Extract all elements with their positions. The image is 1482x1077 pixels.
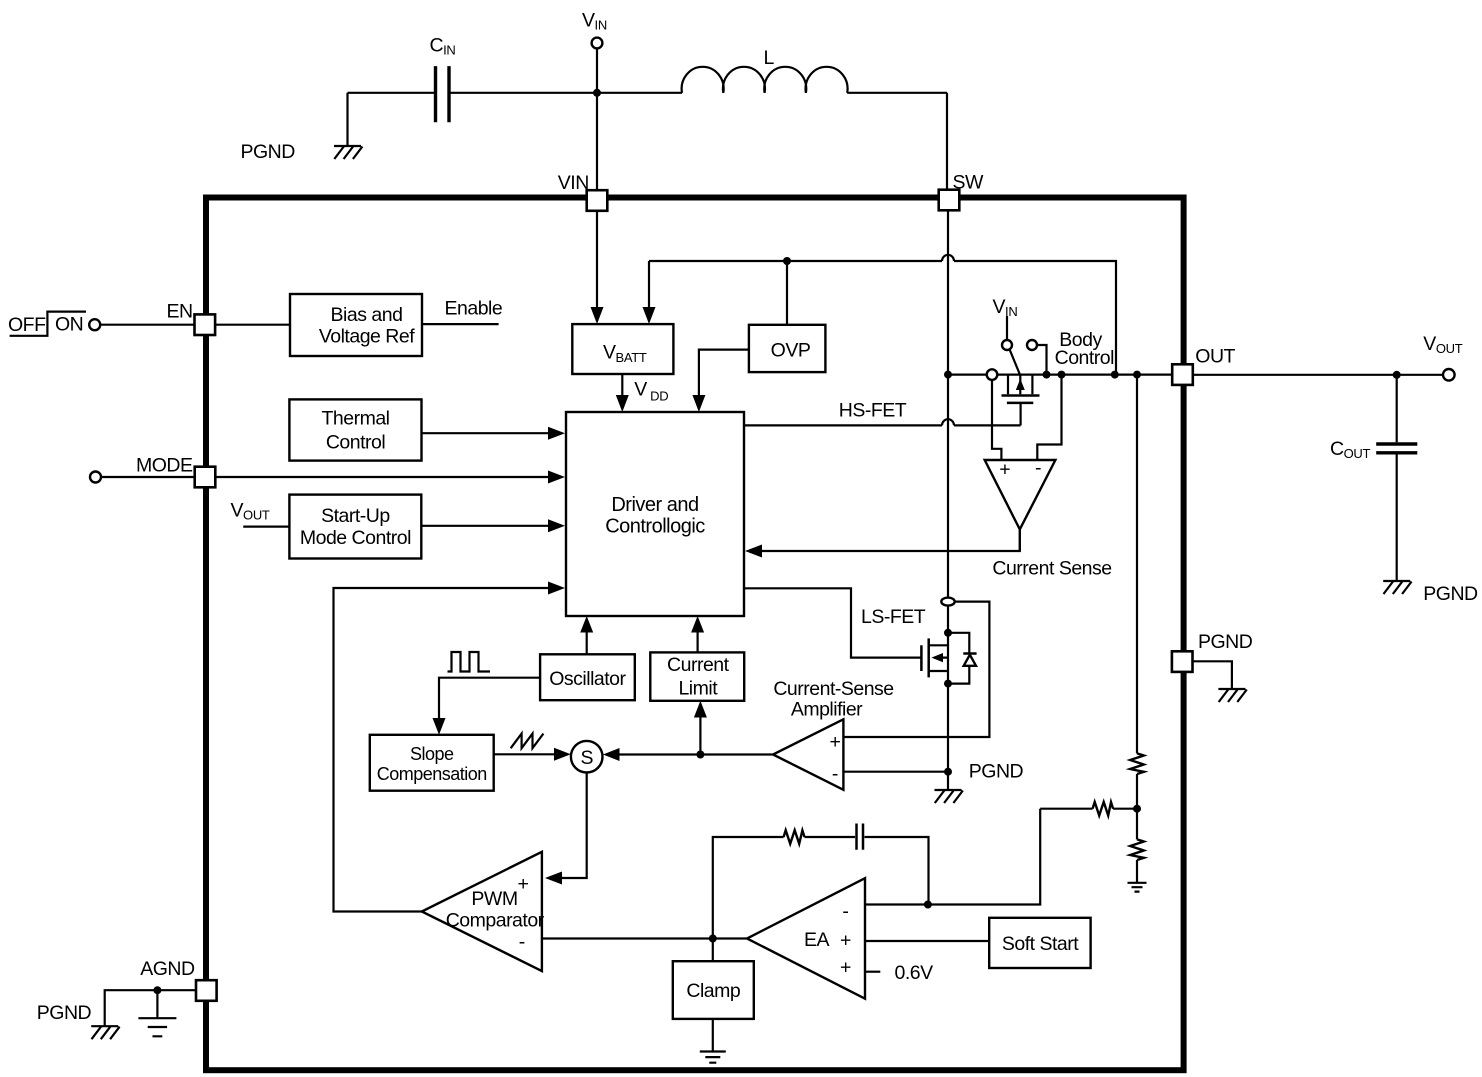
svg-text:Current Sense: Current Sense bbox=[992, 558, 1111, 580]
svg-text:PWM: PWM bbox=[471, 888, 517, 910]
svg-text:+: + bbox=[999, 458, 1010, 480]
svg-text:Voltage Ref: Voltage Ref bbox=[319, 326, 415, 348]
svg-text:PGND: PGND bbox=[1198, 631, 1253, 653]
svg-text:-: - bbox=[832, 763, 838, 785]
svg-text:HS-FET: HS-FET bbox=[839, 400, 907, 422]
svg-text:Current-Sense: Current-Sense bbox=[773, 678, 893, 700]
svg-text:Oscillator: Oscillator bbox=[549, 668, 626, 690]
svg-text:EN: EN bbox=[167, 301, 193, 323]
svg-text:PGND: PGND bbox=[969, 761, 1024, 783]
svg-text:ON: ON bbox=[55, 313, 83, 335]
svg-text:Control: Control bbox=[326, 431, 386, 453]
svg-text:OVP: OVP bbox=[771, 340, 811, 362]
svg-text:LS-FET: LS-FET bbox=[861, 606, 926, 628]
svg-text:PGND: PGND bbox=[241, 141, 296, 163]
svg-text:Driver and: Driver and bbox=[611, 494, 698, 516]
svg-text:+: + bbox=[840, 930, 851, 952]
svg-text:VIN: VIN bbox=[558, 172, 589, 194]
svg-text:-: - bbox=[519, 931, 525, 953]
svg-text:Slope: Slope bbox=[410, 744, 454, 764]
svg-text:+: + bbox=[840, 956, 851, 978]
svg-text:Controllogic: Controllogic bbox=[605, 516, 705, 538]
svg-text:Clamp: Clamp bbox=[686, 980, 741, 1002]
svg-text:-: - bbox=[1035, 457, 1041, 479]
svg-text:Limit: Limit bbox=[678, 677, 718, 699]
svg-text:SW: SW bbox=[953, 172, 985, 194]
svg-text:Start-Up: Start-Up bbox=[321, 505, 390, 527]
svg-text:+: + bbox=[518, 873, 529, 895]
svg-text:OUT: OUT bbox=[1195, 346, 1235, 368]
svg-text:OFF: OFF bbox=[8, 314, 46, 336]
svg-text:-: - bbox=[842, 900, 848, 922]
svg-text:0.6V: 0.6V bbox=[895, 962, 934, 984]
svg-text:S: S bbox=[580, 747, 593, 769]
svg-text:Mode Control: Mode Control bbox=[300, 527, 411, 549]
svg-text:Current: Current bbox=[667, 654, 730, 676]
svg-text:Enable: Enable bbox=[445, 298, 503, 320]
svg-text:Thermal: Thermal bbox=[321, 408, 389, 430]
svg-text:MODE: MODE bbox=[136, 455, 193, 477]
svg-text:Control: Control bbox=[1055, 347, 1115, 369]
svg-text:Bias and: Bias and bbox=[331, 304, 403, 326]
svg-text:Comparator: Comparator bbox=[446, 910, 545, 932]
svg-text:+: + bbox=[829, 731, 840, 753]
svg-text:PGND: PGND bbox=[1423, 583, 1478, 605]
svg-text:L: L bbox=[764, 47, 775, 69]
svg-text:EA: EA bbox=[804, 929, 830, 951]
svg-text:Compensation: Compensation bbox=[377, 764, 487, 784]
svg-text:AGND: AGND bbox=[140, 958, 195, 980]
svg-text:Soft Start: Soft Start bbox=[1002, 933, 1079, 955]
svg-text:PGND: PGND bbox=[37, 1002, 92, 1024]
svg-text:Amplifier: Amplifier bbox=[791, 699, 863, 721]
